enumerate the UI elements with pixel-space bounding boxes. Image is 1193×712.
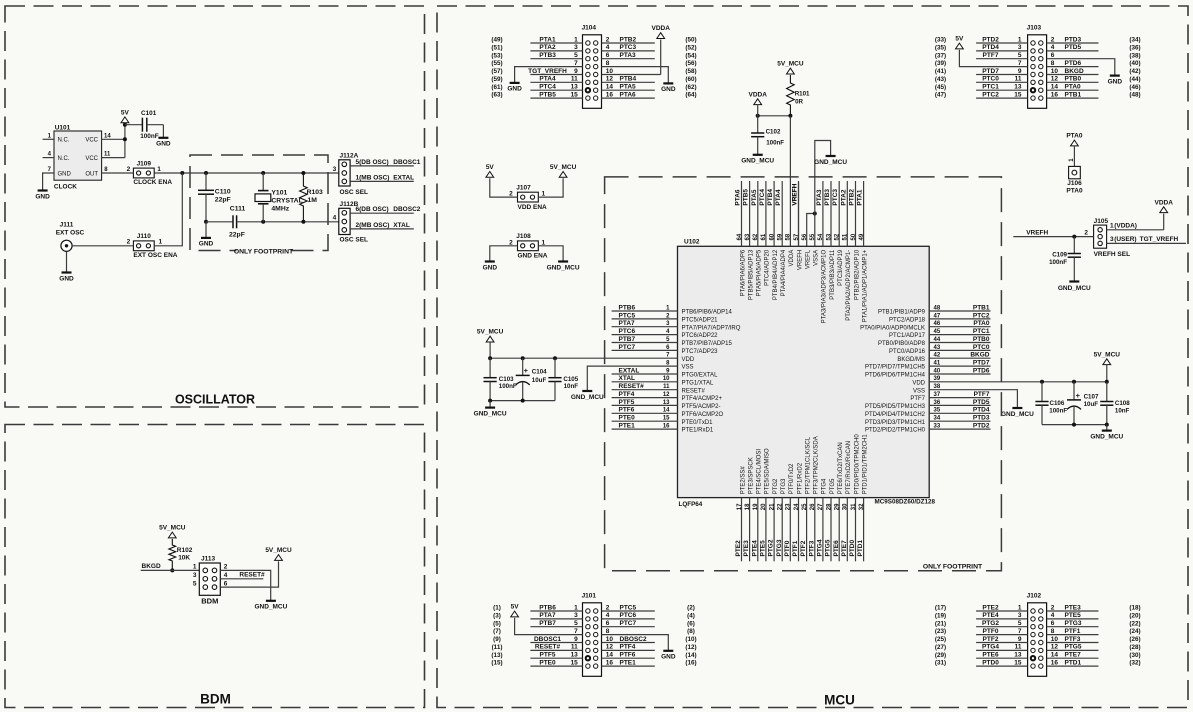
- power VDDA (C102 node): [748, 91, 767, 116]
- svg-text:2: 2: [606, 604, 610, 611]
- svg-text:PTC7/ADP23: PTC7/ADP23: [682, 349, 719, 355]
- svg-text:(47): (47): [935, 92, 946, 99]
- svg-text:RESET#: RESET#: [535, 644, 561, 651]
- wire U102 pin 53 (PTB3/PIB3/ADP11): [824, 181, 836, 300]
- wire U102 pin 34 (PTD3/PID3/TPM1CH1): [865, 415, 991, 426]
- wire VREFH/VDDA node: [756, 114, 793, 247]
- svg-text:9: 9: [1018, 68, 1022, 75]
- svg-text:10nF: 10nF: [564, 383, 579, 390]
- svg-text:GND_MCU: GND_MCU: [814, 159, 847, 166]
- svg-text:PTB3: PTB3: [824, 189, 831, 206]
- svg-text:11: 11: [1015, 76, 1022, 83]
- svg-text:PTF6: PTF6: [620, 652, 636, 659]
- svg-text:(32): (32): [1129, 660, 1140, 667]
- svg-text:GND: GND: [58, 171, 72, 177]
- svg-text:(22): (22): [1129, 620, 1140, 627]
- connector J111 EXT OSC input: [56, 222, 85, 252]
- svg-text:PTF5: PTF5: [619, 399, 635, 406]
- wire J104 pin 3 PTA2: [491, 44, 582, 51]
- wire J103 pin 2 PTD3: [1047, 36, 1141, 43]
- svg-text:3: 3: [574, 612, 578, 619]
- svg-text:PTB4/PIB4/ADP12: PTB4/PIB4/ADP12: [773, 249, 779, 300]
- wire U102 pin 59 (PTA4/PIA4/ADP4): [775, 181, 787, 296]
- svg-text:(21): (21): [935, 620, 946, 627]
- svg-text:(41): (41): [935, 68, 946, 75]
- svg-text:PTF5: PTF5: [540, 652, 556, 659]
- wire U102 pin 62 (PTA5/PIA5/ADP5): [751, 181, 763, 296]
- svg-text:PTA5/PIA5/ADP5: PTA5/PIA5/ADP5: [757, 249, 763, 296]
- svg-text:RESET#: RESET#: [682, 388, 706, 394]
- wire J111 to J110 pin2: [72, 245, 133, 247]
- wire BKGD net to J113 pin1: [141, 563, 200, 570]
- svg-text:(50): (50): [685, 37, 696, 44]
- svg-text:PTB1: PTB1: [1065, 91, 1082, 98]
- svg-text:PTF1/RxD2: PTF1/RxD2: [797, 462, 803, 494]
- ground GND_MCU (J108): [547, 262, 580, 272]
- wire J104 pin 11 PTA4: [491, 76, 582, 83]
- svg-text:PTD6: PTD6: [973, 367, 990, 374]
- svg-text:U101: U101: [55, 124, 71, 131]
- wire J102 pin 16 PTD1: [1047, 659, 1141, 666]
- svg-text:PTF0: PTF0: [784, 540, 791, 556]
- svg-text:1: 1: [157, 166, 161, 173]
- wire U102 pin 27 (PTG4): [817, 478, 828, 561]
- svg-text:(15): (15): [491, 660, 502, 667]
- svg-text:PTG4: PTG4: [982, 644, 999, 651]
- svg-text:(58): (58): [685, 68, 696, 75]
- wire J103 pin 6 @: [1051, 52, 1141, 59]
- svg-text:BDM: BDM: [200, 692, 231, 707]
- capacitor C107 10uF (polarized): [1067, 382, 1099, 425]
- svg-text:(19): (19): [935, 613, 946, 620]
- wire U102 pin 46 (PTA0/PIA0/ADP0/MCLK): [860, 320, 990, 331]
- svg-text:PTE5: PTE5: [1065, 612, 1082, 619]
- svg-text:GND: GND: [661, 654, 676, 661]
- wire J109 pin1 to EXTAL net: [154, 171, 339, 175]
- svg-text:12: 12: [1051, 644, 1059, 651]
- wire U102 pin 3 (PTA7/PIA7/ADP7/IRQ): [612, 320, 741, 331]
- svg-text:J108: J108: [516, 233, 531, 240]
- ground GND_MCU (C103 group): [474, 408, 507, 418]
- svg-text:10K: 10K: [178, 554, 190, 561]
- svg-text:PTD5: PTD5: [1065, 44, 1082, 51]
- svg-text:(61): (61): [491, 84, 502, 91]
- wire J104 pin7 to ground: [515, 67, 583, 83]
- svg-text:PTE6/TxD2/TxCAN: PTE6/TxD2/TxCAN: [838, 442, 844, 494]
- capacitor C102 100nF: [751, 116, 784, 155]
- svg-text:5V_MCU: 5V_MCU: [265, 547, 292, 554]
- svg-text:(13): (13): [491, 652, 502, 659]
- connector J102 header: [1027, 593, 1047, 677]
- svg-text:BDM: BDM: [201, 596, 218, 605]
- wire U102 pin 57 (VREFH): [792, 181, 804, 270]
- wire U102 pin 2 (PTC5/ADP21): [612, 312, 719, 323]
- svg-text:9: 9: [574, 636, 578, 643]
- svg-text:PTB1/PIB1/ADP9: PTB1/PIB1/ADP9: [878, 310, 926, 316]
- svg-text:7: 7: [574, 628, 578, 635]
- wire U102 pin 35 (PTD4/PID4/TPM1CH2): [865, 407, 991, 418]
- wire J101 pin 12 PTF4: [602, 644, 697, 651]
- svg-text:2: 2: [606, 36, 610, 43]
- svg-text:DBOSC1: DBOSC1: [393, 159, 420, 166]
- svg-text:(26): (26): [1129, 636, 1140, 643]
- svg-text:J104: J104: [582, 25, 597, 32]
- svg-text:J102: J102: [1027, 593, 1042, 600]
- svg-text:PTD6: PTD6: [1065, 60, 1082, 67]
- svg-text:(11): (11): [492, 644, 503, 651]
- svg-text:(14): (14): [685, 652, 696, 659]
- svg-text:(46): (46): [1129, 84, 1140, 91]
- crystal Y101 4MHz: [255, 173, 303, 222]
- svg-text:PTF3: PTF3: [1065, 636, 1081, 643]
- wire VREFH net to J105 pin2: [1013, 229, 1093, 238]
- svg-text:PTC3/ADP19: PTC3/ADP19: [838, 249, 844, 286]
- svg-text:PTA6/PIA6/ADP6: PTA6/PIA6/ADP6: [740, 249, 746, 296]
- svg-text:PTD2/PID2/TPM1CH0: PTD2/PID2/TPM1CH0: [865, 428, 926, 434]
- svg-text:J106: J106: [1067, 180, 1082, 187]
- svg-text:PTC0/ADP16: PTC0/ADP16: [889, 349, 926, 355]
- svg-text:PTA2/PIA2/ADP2/ACMP1-: PTA2/PIA2/ADP2/ACMP1-: [846, 250, 852, 321]
- svg-text:PTA0/PIA0/ADP0/MCLK: PTA0/PIA0/ADP0/MCLK: [860, 325, 925, 331]
- svg-text:J113: J113: [201, 556, 215, 563]
- power flag PTA0 (J106): [1066, 133, 1083, 167]
- net label VREFH (pin57 wire): [792, 183, 799, 246]
- svg-text:6(DB OSC): 6(DB OSC): [356, 206, 389, 213]
- svg-text:R101: R101: [795, 90, 810, 97]
- svg-text:GND: GND: [483, 264, 498, 271]
- svg-text:GND_MCU: GND_MCU: [547, 264, 580, 271]
- svg-text:PTC1: PTC1: [973, 328, 990, 335]
- svg-text:EXTAL: EXTAL: [619, 367, 640, 374]
- svg-text:BKGD/MS: BKGD/MS: [897, 357, 925, 363]
- svg-text:11: 11: [1015, 644, 1022, 651]
- svg-text:TGT_VREFH: TGT_VREFH: [528, 68, 567, 75]
- wire J103 pin 1 PTD2: [935, 36, 1028, 43]
- wire U102 pin 22 (PTG3): [776, 478, 787, 561]
- wire J102 pin 5 PTG2: [935, 620, 1028, 627]
- svg-text:1M: 1M: [308, 197, 318, 204]
- wire J102 pin 14 PTE7: [1047, 652, 1141, 659]
- svg-text:GND: GND: [199, 241, 214, 248]
- svg-text:PTB5/PIB5/ADP13: PTB5/PIB5/ADP13: [748, 249, 754, 300]
- svg-text:PTG5: PTG5: [825, 539, 832, 556]
- svg-text:PTE0: PTE0: [539, 659, 556, 666]
- svg-text:6: 6: [1051, 620, 1055, 627]
- svg-text:(63): (63): [491, 92, 502, 99]
- svg-text:5: 5: [574, 620, 578, 627]
- svg-text:14: 14: [104, 133, 111, 139]
- wire U102 pin 58 (VDDA): [786, 233, 796, 266]
- svg-text:C106: C106: [1050, 400, 1065, 407]
- svg-text:VDDA: VDDA: [789, 250, 795, 267]
- svg-text:PTE5/SDA/MISO: PTE5/SDA/MISO: [765, 448, 771, 494]
- svg-text:GND_MCU: GND_MCU: [1058, 285, 1091, 292]
- wire U102 pin 43 (PTC0/ADP16): [889, 344, 991, 355]
- svg-text:16: 16: [606, 659, 614, 666]
- svg-text:56: 56: [802, 233, 808, 240]
- svg-text:(59): (59): [491, 76, 502, 83]
- wire J112A pin1 EXTAL: [350, 174, 414, 181]
- svg-text:PTF1: PTF1: [1065, 628, 1081, 635]
- svg-text:PTC2/ADP18: PTC2/ADP18: [889, 318, 926, 324]
- wire J112A pin5 DBOSC1: [350, 159, 421, 166]
- svg-text:RESET#: RESET#: [239, 572, 265, 579]
- svg-text:C111: C111: [230, 206, 246, 213]
- power VDDA (J105): [1154, 199, 1173, 212]
- svg-text:C108: C108: [1115, 400, 1130, 407]
- svg-text:PTB5: PTB5: [539, 91, 556, 98]
- svg-text:5V: 5V: [121, 109, 130, 116]
- svg-text:4: 4: [606, 612, 610, 619]
- svg-text:PTF7: PTF7: [910, 396, 925, 402]
- svg-text:PTA4: PTA4: [775, 189, 782, 206]
- svg-text:PTA5: PTA5: [620, 84, 637, 91]
- svg-text:VREFH SEL: VREFH SEL: [1094, 251, 1131, 258]
- wire U102 pin 9 (PTG0/EXTAL): [612, 367, 718, 378]
- capacitor C110 22pF: [198, 173, 231, 224]
- svg-text:PTB3: PTB3: [539, 52, 556, 59]
- svg-text:(36): (36): [1129, 45, 1140, 52]
- wire U101 VCC pins to 5V: [102, 123, 127, 158]
- svg-text:(29): (29): [935, 652, 946, 659]
- svg-text:11: 11: [571, 644, 578, 651]
- wire VSSA/VREFL bracket to ground: [807, 141, 831, 247]
- wire U102 pin 56 (VREFL): [802, 233, 812, 269]
- ground C101 GND: [156, 138, 171, 148]
- svg-text:DBOSC2: DBOSC2: [620, 636, 647, 643]
- svg-text:PTA0: PTA0: [1066, 188, 1083, 195]
- svg-text:(20): (20): [1129, 613, 1140, 620]
- wire U102 pin 12 (PTF4/ACMP2+): [612, 391, 723, 402]
- svg-text:4: 4: [606, 44, 610, 51]
- wire U102 pin 49 (PTA1/PIA1/ADP1/ACMP1+): [857, 181, 869, 322]
- wire J101 pin 3 PTA7: [493, 612, 582, 619]
- svg-text:PTD3/PID3/TPM1CH1: PTD3/PID3/TPM1CH1: [865, 420, 926, 426]
- svg-text:6: 6: [606, 52, 610, 59]
- svg-text:PTF6: PTF6: [619, 407, 635, 414]
- wire U102 pin 15 (PTE0/TxD1): [612, 415, 714, 426]
- svg-text:OUT: OUT: [85, 171, 98, 177]
- wire J104 pin 13 PTC4: [491, 84, 582, 91]
- svg-text:5V_MCU: 5V_MCU: [477, 329, 504, 336]
- svg-text:(8): (8): [687, 628, 695, 635]
- wire J101 pin 13 PTF5: [491, 652, 582, 659]
- wire C110 column to ground: [205, 222, 207, 238]
- wire U102 pin 36 (PTD5/PID5/TPM1CH3): [865, 399, 991, 410]
- svg-text:RESET#: RESET#: [619, 383, 645, 390]
- power 5V (J103): [955, 36, 964, 49]
- svg-text:VDD ENA: VDD ENA: [518, 204, 548, 211]
- svg-text:R103: R103: [307, 189, 323, 196]
- svg-text:55: 55: [810, 233, 816, 240]
- svg-text:(37): (37): [935, 52, 946, 59]
- svg-text:U102: U102: [684, 238, 700, 245]
- ground J111 GND: [59, 273, 74, 283]
- svg-text:7: 7: [574, 60, 578, 67]
- wire J103 pin 5 PTF7: [935, 52, 1028, 59]
- ground GND_MCU (BDM): [254, 601, 287, 611]
- wire U102 pin 24 (PTF1/RxD2): [792, 462, 803, 561]
- svg-text:PTD5: PTD5: [973, 399, 990, 406]
- svg-text:+: +: [524, 366, 529, 375]
- svg-text:4: 4: [1051, 612, 1055, 619]
- wire J103 pin 14 PTA0: [1047, 84, 1141, 91]
- svg-text:PTA5: PTA5: [751, 189, 758, 206]
- svg-text:(27): (27): [935, 644, 946, 651]
- wire U102 pin 30 (PTE7/RxD2/RxCAN): [841, 441, 852, 561]
- svg-text:PTB0: PTB0: [1065, 76, 1082, 83]
- svg-text:(42): (42): [1129, 68, 1140, 75]
- svg-text:PTB0/PIB0/ADP8: PTB0/PIB0/ADP8: [878, 341, 926, 347]
- svg-text:PTF0: PTF0: [983, 628, 999, 635]
- svg-text:15: 15: [1014, 91, 1022, 98]
- svg-text:1: 1: [159, 239, 163, 246]
- svg-text:PTF5/ACMP2-: PTF5/ACMP2-: [682, 404, 721, 410]
- svg-text:13: 13: [571, 652, 579, 659]
- svg-text:1: 1: [1018, 604, 1022, 611]
- svg-text:C101: C101: [141, 110, 157, 117]
- svg-text:PTC6/ADP22: PTC6/ADP22: [682, 333, 719, 339]
- svg-text:(31): (31): [935, 660, 946, 667]
- svg-text:16: 16: [1051, 91, 1059, 98]
- svg-text:PTC3: PTC3: [832, 189, 839, 206]
- ground GND_MCU (VSSA): [814, 156, 847, 166]
- svg-text:1: 1: [1018, 36, 1022, 43]
- svg-text:PTG1/XTAL: PTG1/XTAL: [682, 380, 715, 386]
- svg-text:PTB2: PTB2: [849, 189, 856, 206]
- svg-text:(60): (60): [685, 76, 696, 83]
- svg-text:GND_MCU: GND_MCU: [254, 604, 287, 611]
- svg-text:PTC5: PTC5: [620, 604, 637, 611]
- svg-text:2: 2: [127, 239, 131, 246]
- svg-text:PTA7: PTA7: [619, 320, 636, 327]
- svg-text:PTD0: PTD0: [849, 540, 856, 557]
- wire J101 pin 5 PTB7: [493, 620, 582, 627]
- svg-text:PTB6/PIB6/ADP14: PTB6/PIB6/ADP14: [682, 310, 733, 316]
- svg-text:5V_MCU: 5V_MCU: [1094, 351, 1121, 358]
- svg-text:PTD1: PTD1: [857, 540, 864, 557]
- svg-text:C109: C109: [1052, 251, 1067, 258]
- ground GND_MCU (C102): [741, 155, 774, 165]
- svg-text:PTG3: PTG3: [781, 478, 787, 494]
- svg-text:(30): (30): [1129, 652, 1140, 659]
- svg-text:PTA0: PTA0: [1065, 84, 1082, 91]
- wire U102 pin 47 (PTC2/ADP18): [889, 312, 991, 323]
- svg-text:PTA6: PTA6: [735, 189, 742, 206]
- svg-text:PTA1: PTA1: [539, 36, 556, 43]
- svg-text:(55): (55): [491, 60, 502, 67]
- svg-text:PTC0: PTC0: [973, 344, 990, 351]
- wire U102 pin 48 (PTB1/PIB1/ADP9): [878, 304, 991, 315]
- svg-text:100nF: 100nF: [1049, 259, 1067, 266]
- ground GND_MCU (U102 VSS pin38): [1001, 408, 1034, 418]
- svg-text:C105: C105: [563, 376, 578, 383]
- svg-text:PTE5: PTE5: [760, 540, 767, 557]
- svg-text:PTF6/ACMP2O: PTF6/ACMP2O: [682, 412, 724, 418]
- svg-text:15: 15: [1014, 659, 1022, 666]
- wire U102 pin 29 (PTE6/TxD2/TxCAN): [833, 442, 844, 561]
- svg-text:PTG2: PTG2: [773, 478, 779, 494]
- svg-text:C104: C104: [532, 369, 547, 376]
- svg-text:DBOSC2: DBOSC2: [393, 206, 420, 213]
- svg-text:PTE2: PTE2: [735, 540, 742, 557]
- svg-text:PTF3/TPM2CLK/SDA: PTF3/TPM2CLK/SDA: [814, 436, 820, 494]
- svg-text:9: 9: [574, 68, 578, 75]
- svg-text:2: 2: [127, 166, 131, 173]
- resistor R103 1M: [300, 173, 323, 222]
- wire U101 pin1: [43, 138, 54, 140]
- svg-text:58: 58: [786, 233, 792, 240]
- wire VDD rail junction dots (C106 group): [1040, 380, 1109, 384]
- svg-text:8: 8: [606, 628, 610, 635]
- svg-text:(17): (17): [935, 605, 946, 612]
- svg-text:12: 12: [1051, 76, 1059, 83]
- svg-text:11: 11: [104, 152, 111, 158]
- wire J101 pin 14 PTF6: [602, 652, 697, 659]
- svg-text:PTA2: PTA2: [539, 44, 556, 51]
- svg-text:10: 10: [1051, 636, 1059, 643]
- power 5V_MCU (R101): [777, 61, 804, 74]
- svg-text:PTE0: PTE0: [619, 415, 636, 422]
- svg-text:BKGD: BKGD: [970, 352, 989, 359]
- wire J104 pin 12 PTB4: [602, 76, 697, 83]
- svg-text:5V: 5V: [955, 36, 964, 43]
- svg-text:15: 15: [571, 659, 579, 666]
- capacitor C103 100nF: [484, 358, 517, 400]
- svg-text:(52): (52): [685, 45, 696, 52]
- wire U102 pin 20 (PTE5/SDA/MISO): [760, 448, 771, 561]
- svg-text:PTE4/SCL/MOSI: PTE4/SCL/MOSI: [757, 449, 763, 495]
- ground GND (J103): [1108, 76, 1123, 86]
- svg-text:16: 16: [606, 91, 614, 98]
- svg-text:PTB7: PTB7: [619, 336, 636, 343]
- svg-text:VDD: VDD: [682, 357, 695, 363]
- power 5V_MCU (J107): [550, 164, 577, 177]
- wire U102 pin 19 (PTE4/SCL/MOSI): [751, 449, 762, 562]
- wire J101 pin 16 PTE1: [602, 659, 697, 666]
- wire U102 pin 40 (PTD6/PID6/TPM1CH4): [865, 367, 991, 378]
- svg-text:14: 14: [606, 84, 614, 91]
- wire J101 pin8 to ground: [602, 635, 669, 651]
- svg-text:XTAL: XTAL: [619, 375, 636, 382]
- wire J102 pin 4 PTE5: [1047, 612, 1141, 619]
- svg-text:PTF4: PTF4: [620, 644, 636, 651]
- svg-text:7: 7: [1018, 628, 1022, 635]
- svg-text:2(MB OSC): 2(MB OSC): [356, 222, 390, 229]
- svg-text:(3): (3): [493, 613, 501, 620]
- svg-text:(57): (57): [491, 68, 502, 75]
- svg-text:100nF: 100nF: [140, 133, 159, 140]
- wire J104 pin 16 PTA6: [602, 91, 697, 98]
- svg-text:5V: 5V: [511, 604, 520, 611]
- wire J102 pin 1 PTE2: [935, 604, 1028, 611]
- wire J107 pin1 to 5V_MCU: [538, 178, 563, 197]
- power 5V (J107): [486, 164, 495, 177]
- svg-text:EXT OSC ENA: EXT OSC ENA: [133, 252, 177, 259]
- wire J112B pin6 DBOSC2: [350, 206, 421, 213]
- wire J105 pin3 TGT_VREFH: [1107, 236, 1186, 243]
- wire J104 pin10 to VDDA: [602, 40, 661, 75]
- resistor R102 10K: [169, 539, 193, 573]
- svg-text:(28): (28): [1129, 644, 1140, 651]
- svg-text:J110: J110: [137, 233, 151, 240]
- svg-text:5: 5: [193, 580, 197, 587]
- svg-text:PTA3: PTA3: [816, 189, 823, 206]
- svg-text:PTB4: PTB4: [767, 189, 774, 206]
- svg-text:5V_MCU: 5V_MCU: [159, 525, 186, 532]
- svg-text:VSS: VSS: [682, 365, 694, 371]
- svg-text:(12): (12): [685, 644, 696, 651]
